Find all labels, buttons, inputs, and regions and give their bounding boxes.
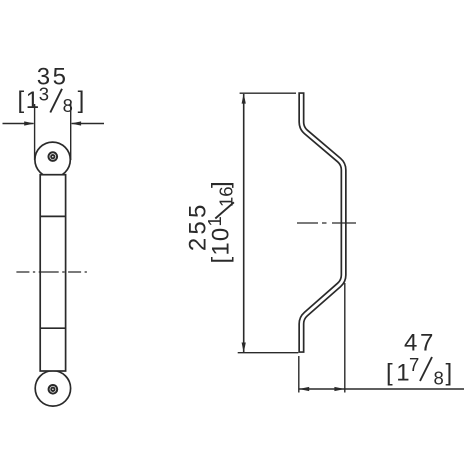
front view centerline dash-dot: [16, 271, 90, 273]
top screw inner circle: [51, 155, 54, 158]
handle grip bar body: [40, 175, 65, 371]
handle bar joint line lower: [40, 327, 65, 329]
dimension 35: arrowhead left-pointing: [71, 121, 81, 125]
dimension 255: top extension line: [240, 92, 296, 94]
dimension 35: extension line right: [70, 104, 72, 160]
handle top mounting flange circle: [35, 142, 70, 177]
top screw outer circle: [49, 152, 58, 161]
svg-text:8: 8: [434, 368, 444, 389]
svg-text:8: 8: [63, 95, 73, 116]
dimension 47: extension line from front face: [344, 283, 346, 393]
svg-text:]: ]: [446, 359, 453, 386]
dimension 255: arrowhead up: [242, 93, 246, 103]
dimension 255: arrowhead down: [242, 343, 246, 353]
dimension 255: bottom extension line: [238, 352, 299, 354]
dimension 35: left dimension line segment with arrow: [3, 123, 105, 125]
dimension 47: arrowhead right-pointing: [334, 387, 344, 391]
dimension 47: horizontal dimension line with leader: [299, 388, 464, 390]
handle bar joint line upper: [40, 215, 65, 217]
svg-text:[: [: [18, 87, 25, 114]
svg-text:47: 47: [404, 330, 436, 357]
text [10 1/16] (rotated): [204, 181, 237, 263]
dimension 35: extension line left: [34, 104, 36, 160]
svg-text:]: ]: [78, 87, 85, 114]
svg-text:[10: [10: [208, 227, 235, 264]
bottom screw outer circle: [49, 385, 58, 394]
dimension 255: vertical dimension line: [243, 94, 245, 352]
bottom screw inner circle: [51, 388, 54, 391]
svg-text:1: 1: [204, 216, 225, 226]
svg-text:]: ]: [208, 181, 235, 188]
handle bottom mounting flange circle: [35, 371, 70, 406]
side profile inner white core: [301, 94, 343, 351]
dimension 35: arrowhead right-pointing: [24, 121, 34, 125]
side profile centerline dash-dot: [297, 222, 357, 224]
dimension 47: arrowhead left-pointing: [299, 387, 309, 391]
svg-text:16: 16: [216, 186, 237, 207]
side profile outer outline (bent flat bar): [301, 92, 343, 353]
svg-text:3: 3: [39, 84, 49, 105]
svg-text:7: 7: [409, 354, 419, 375]
svg-text:1: 1: [26, 87, 39, 114]
dimension 47: extension line from back face: [298, 356, 300, 393]
